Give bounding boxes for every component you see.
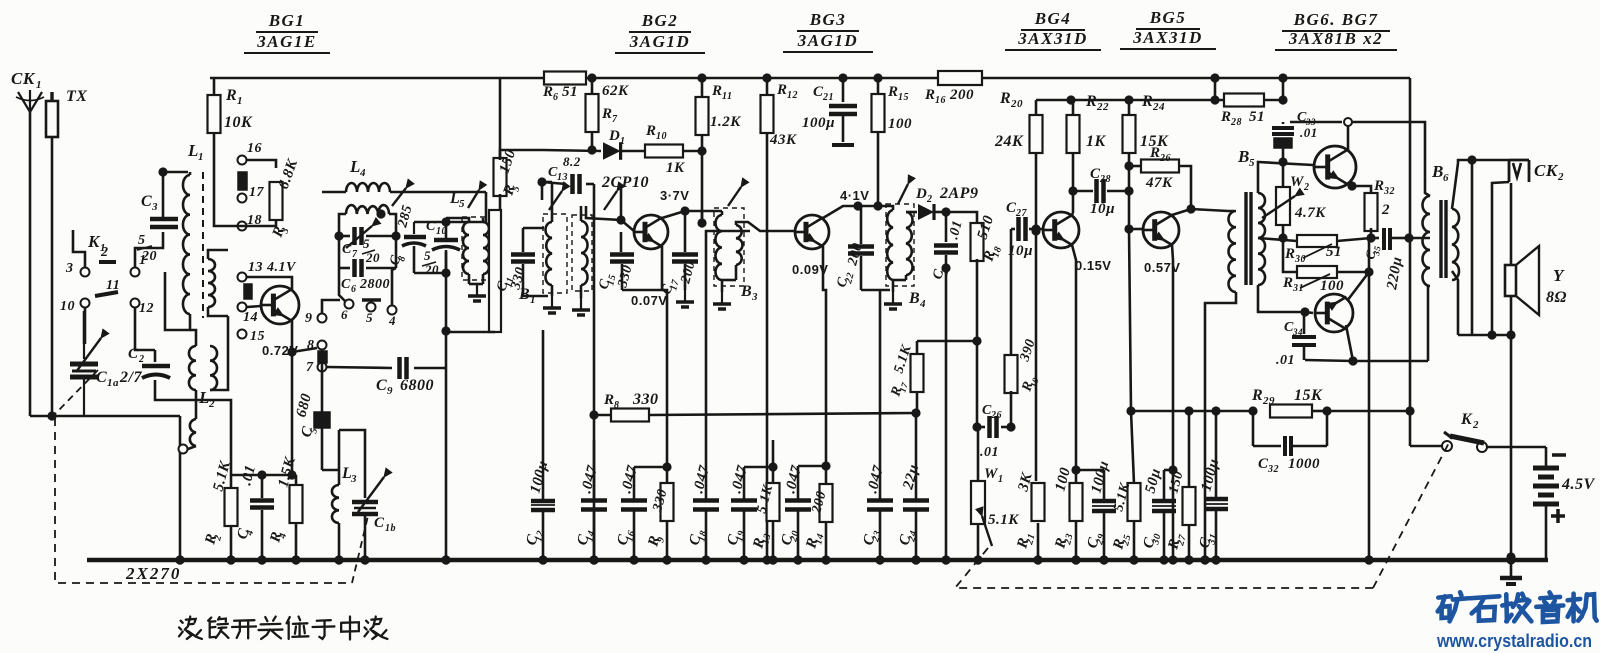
svg-text:285: 285 xyxy=(395,203,416,230)
switch contacts 16 17 18 xyxy=(238,141,265,231)
on-off switch K2 xyxy=(1442,411,1487,452)
resistor R19 390 xyxy=(1005,229,1041,432)
capacitor C28 10u xyxy=(1073,166,1129,217)
feedback line to R29 xyxy=(1131,406,1258,415)
svg-text:R: R xyxy=(1149,145,1161,161)
svg-text:14: 14 xyxy=(243,310,258,325)
svg-text:0.15V: 0.15V xyxy=(1075,258,1111,273)
wire rail to bus xyxy=(1210,73,1219,100)
volume/switch dashed link xyxy=(955,437,1452,588)
svg-text:W: W xyxy=(984,466,999,482)
svg-text:13: 13 xyxy=(557,172,568,183)
svg-text:2800: 2800 xyxy=(359,277,390,292)
L1 secondary winding xyxy=(208,250,228,316)
transistor BG4 xyxy=(1043,212,1079,248)
svg-text:6: 6 xyxy=(553,92,559,103)
wire K1-10 down to C1a xyxy=(84,308,87,344)
svg-text:3: 3 xyxy=(751,291,758,303)
capacitor C11 330 xyxy=(494,228,548,296)
wire BG7 emitter xyxy=(1347,272,1369,301)
capacitor C19 .047 xyxy=(724,464,757,565)
svg-text:100µ: 100µ xyxy=(527,459,551,495)
svg-text:17: 17 xyxy=(249,185,265,200)
svg-text:27: 27 xyxy=(1015,208,1028,219)
transistor BG1 xyxy=(261,286,299,324)
svg-text:2: 2 xyxy=(926,194,933,205)
svg-text:3: 3 xyxy=(65,261,74,276)
svg-text:.047: .047 xyxy=(782,464,805,495)
wire jack to speaker top xyxy=(1510,183,1513,265)
potentiometer W1 5.1K xyxy=(971,427,1019,565)
transistor BG2 xyxy=(634,215,668,249)
svg-text:19: 19 xyxy=(1028,376,1041,389)
svg-text:6: 6 xyxy=(341,307,348,322)
svg-text:10K: 10K xyxy=(224,114,253,131)
svg-text:15: 15 xyxy=(898,92,909,103)
wire L1 bottom xyxy=(165,272,190,330)
resistor R14 200 xyxy=(798,461,833,564)
svg-text:BG6. BG7: BG6. BG7 xyxy=(1293,10,1379,29)
L1 core (dashed) xyxy=(202,172,204,318)
svg-text:5: 5 xyxy=(363,236,370,251)
transistor BG5 xyxy=(1143,212,1179,248)
svg-text:7: 7 xyxy=(352,249,358,260)
svg-text:B: B xyxy=(908,290,920,307)
B4 primary winding xyxy=(878,206,902,309)
svg-text:CK: CK xyxy=(1534,161,1559,180)
wire BG1 emitter to contact 8 xyxy=(292,348,317,352)
svg-text:4.5V: 4.5V xyxy=(1561,476,1596,493)
svg-text:.047: .047 xyxy=(728,464,751,495)
bus junction dots xyxy=(175,555,369,564)
svg-text:8Ω: 8Ω xyxy=(1546,289,1567,306)
svg-text:3AX81B x2: 3AX81B x2 xyxy=(1288,29,1383,48)
svg-text:3: 3 xyxy=(350,473,357,485)
output transformer B6 xyxy=(1423,162,1460,286)
svg-text:1b: 1b xyxy=(385,523,396,534)
svg-text:5: 5 xyxy=(424,248,431,263)
IF transformer B3 shield xyxy=(714,208,744,286)
wire BG2 base xyxy=(586,206,634,231)
capacitor C33 .01 xyxy=(1272,110,1318,162)
svg-text:C: C xyxy=(341,277,351,292)
svg-text:.047: .047 xyxy=(690,464,713,495)
tuning arrow on L4 xyxy=(392,179,414,206)
svg-text:.01: .01 xyxy=(1276,353,1295,368)
resistor R24 15K xyxy=(1123,93,1170,234)
wire B6 secondary bottom xyxy=(1452,271,1458,335)
svg-text:4: 4 xyxy=(919,298,926,310)
wire BG5 base xyxy=(1129,228,1143,231)
svg-text:3AG1D: 3AG1D xyxy=(797,31,858,50)
wire L2 right to contacts xyxy=(210,316,228,390)
resistor R13 5.1K xyxy=(744,462,780,564)
svg-text:100µ: 100µ xyxy=(1088,459,1112,495)
wire BG5 collector xyxy=(1172,209,1191,215)
capacitor C29 100u xyxy=(1076,459,1116,565)
svg-text:2: 2 xyxy=(1472,419,1479,431)
capacitor C13 8.2 xyxy=(537,154,594,200)
resistor R9 330 xyxy=(634,462,674,564)
wire base vertical down xyxy=(1126,229,1135,484)
svg-text:3·7V: 3·7V xyxy=(660,188,689,203)
svg-text:R: R xyxy=(1284,246,1296,262)
B1 primary winding xyxy=(543,182,561,313)
svg-text:D: D xyxy=(608,128,620,144)
ground symbol xyxy=(1500,557,1522,584)
svg-text:R: R xyxy=(924,87,936,103)
wire C1a top to K1 xyxy=(83,311,86,344)
contacts 9 8 7 xyxy=(305,311,327,375)
svg-text:5: 5 xyxy=(1249,157,1255,169)
svg-text:17: 17 xyxy=(897,381,910,394)
wire emitter rail to R2 C4 R4 xyxy=(231,470,297,479)
contact 13 and label 4.1V xyxy=(238,260,298,299)
earphone jack CK2 xyxy=(1509,160,1564,183)
svg-text:2: 2 xyxy=(1381,202,1390,218)
svg-text:R: R xyxy=(999,90,1011,107)
wire C3 top to L1 top xyxy=(158,167,188,196)
capacitor C5 680 xyxy=(293,351,339,470)
svg-text:R: R xyxy=(887,84,899,100)
svg-text:3AG1E: 3AG1E xyxy=(256,32,316,51)
svg-text:16: 16 xyxy=(624,529,637,542)
capacitor C32 1000 xyxy=(1253,411,1327,475)
wire BG1 emitter down xyxy=(291,320,294,475)
wire R5 top to diode line xyxy=(500,150,543,160)
svg-text:R: R xyxy=(542,84,554,100)
wire B6 secondary top to CK2 xyxy=(1452,155,1509,209)
svg-text:9: 9 xyxy=(305,311,313,326)
wire down to ground bus xyxy=(175,416,184,565)
svg-text:16: 16 xyxy=(935,95,946,106)
svg-text:26: 26 xyxy=(1159,153,1171,164)
capacitor C17 200 xyxy=(659,211,698,307)
svg-text:2: 2 xyxy=(1303,182,1310,193)
label 0.09V xyxy=(792,262,828,277)
svg-text:R: R xyxy=(1085,93,1097,110)
wire C18 top xyxy=(706,231,750,470)
label 4.1V xyxy=(840,188,869,203)
svg-text:.047: .047 xyxy=(618,464,641,495)
svg-text:C: C xyxy=(128,346,139,362)
L2 tickler winding xyxy=(179,390,197,454)
svg-text:1a: 1a xyxy=(107,377,119,389)
wire C14 line down xyxy=(589,415,598,565)
svg-text:1: 1 xyxy=(237,95,243,107)
wire oscillator tank xyxy=(414,192,486,565)
wire B5 primary bottom xyxy=(1200,292,1236,565)
svg-text:51: 51 xyxy=(562,84,578,100)
svg-text:1: 1 xyxy=(36,79,42,91)
wire base BG1 xyxy=(247,306,261,307)
diode D1 2CP10 xyxy=(543,128,649,191)
resistor R4 1.5K xyxy=(267,455,302,565)
B3 secondary winding xyxy=(722,222,795,280)
capacitor C2 xyxy=(128,346,170,392)
capacitor C20 .047 xyxy=(778,464,811,565)
label B4 xyxy=(908,290,926,310)
svg-text:R: R xyxy=(1251,387,1263,404)
svg-text:100µ: 100µ xyxy=(802,115,835,131)
top supply bus xyxy=(210,77,1410,80)
wire B5 secondary bottom to BG7 base xyxy=(1258,285,1313,317)
svg-text:12: 12 xyxy=(533,529,546,542)
wire C24 line xyxy=(915,413,918,500)
watermark url xyxy=(1436,631,1592,651)
IF transformer B1 secondary box xyxy=(572,215,592,291)
svg-text:20: 20 xyxy=(1010,98,1023,110)
wire R29 to supply line xyxy=(1327,406,1415,415)
resistor R32 2 xyxy=(1365,178,1396,243)
wire BG1 collector up xyxy=(247,277,292,291)
diode D2 2AP9 xyxy=(915,185,978,220)
svg-text:680: 680 xyxy=(293,392,315,419)
wire L2 top xyxy=(190,330,196,346)
capacitor C4 .01 xyxy=(234,463,274,564)
svg-text:2X270: 2X270 xyxy=(125,564,181,583)
svg-text:11: 11 xyxy=(722,91,732,102)
svg-text:.047: .047 xyxy=(864,464,887,495)
svg-text:1000: 1000 xyxy=(1288,456,1320,472)
resistor R22 1K xyxy=(1067,93,1110,213)
svg-text:22: 22 xyxy=(1096,101,1109,113)
wire L3 C1b top join xyxy=(339,430,365,460)
wire BG2 emitter xyxy=(622,246,667,467)
svg-text:22µ: 22µ xyxy=(900,463,922,492)
svg-text:R: R xyxy=(1373,178,1385,194)
svg-text:10: 10 xyxy=(60,299,75,314)
svg-text:www.crystalradio.cn: www.crystalradio.cn xyxy=(1436,631,1592,651)
svg-text:220µ: 220µ xyxy=(1384,255,1406,291)
wire collector line to B6 top xyxy=(1352,122,1430,196)
capacitor C21 100u xyxy=(802,73,857,145)
wire bias rail to B6 centre tap xyxy=(1409,237,1430,240)
svg-text:2AP9: 2AP9 xyxy=(939,185,978,202)
svg-text:50µ: 50µ xyxy=(1142,467,1164,495)
inductor L1 (ferrite antenna coil) xyxy=(183,141,204,314)
capacitor C30 50u xyxy=(1140,467,1176,560)
caption: band switch set to MW (Chinese) xyxy=(179,617,387,640)
svg-text:8: 8 xyxy=(307,338,315,353)
svg-text:2: 2 xyxy=(1557,171,1564,183)
tuning arrow B4 xyxy=(898,175,915,204)
transistor BG7 xyxy=(1315,294,1353,332)
resistor R17 5.1K xyxy=(888,336,981,413)
contact 15 xyxy=(238,329,266,344)
potentiometer W2 4.7K xyxy=(1262,162,1326,243)
svg-text:2/7: 2/7 xyxy=(119,369,142,386)
resistor R31 100 xyxy=(1282,238,1374,294)
svg-text:5: 5 xyxy=(138,233,146,248)
svg-text:R: R xyxy=(225,87,237,104)
battery 4.5V xyxy=(1533,455,1596,560)
svg-text:2: 2 xyxy=(138,354,145,365)
resistor R5 150 xyxy=(494,78,523,210)
svg-text:30: 30 xyxy=(1294,254,1306,265)
svg-text:21: 21 xyxy=(822,92,834,103)
capacitor C12 100u xyxy=(523,330,555,565)
svg-text:B: B xyxy=(1237,147,1250,166)
resistor R27 150 xyxy=(1165,406,1195,564)
wire BG2 collector xyxy=(662,206,707,227)
svg-text:.01: .01 xyxy=(946,219,965,241)
svg-text:CK: CK xyxy=(11,69,36,88)
svg-text:R: R xyxy=(645,123,657,139)
svg-text:4: 4 xyxy=(359,167,366,179)
svg-text:32: 32 xyxy=(1383,186,1395,197)
svg-text:8: 8 xyxy=(614,400,620,411)
wire BG7 collector to B6 bottom xyxy=(1305,286,1428,366)
svg-text:6800: 6800 xyxy=(400,377,434,394)
B3 primary winding xyxy=(702,211,731,309)
svg-text:3AX31D: 3AX31D xyxy=(1132,28,1202,47)
svg-text:B: B xyxy=(740,283,752,300)
svg-text:1: 1 xyxy=(998,474,1004,485)
svg-text:20: 20 xyxy=(424,262,439,277)
svg-text:W: W xyxy=(1290,174,1305,190)
svg-text:0.07V: 0.07V xyxy=(631,293,667,308)
trimmer C10 5/20 xyxy=(422,219,460,277)
capacitor C15 330 xyxy=(596,232,635,291)
svg-text:0.57V: 0.57V xyxy=(1144,260,1180,275)
open junction xyxy=(1344,118,1352,126)
svg-text:2: 2 xyxy=(100,245,109,260)
svg-text:TX: TX xyxy=(66,88,87,105)
svg-text:3AG1D: 3AG1D xyxy=(629,32,690,51)
capacitor C9 6800 xyxy=(327,357,446,397)
svg-text:10: 10 xyxy=(656,131,667,142)
transistor BG3 xyxy=(795,215,829,249)
svg-text:1.2K: 1.2K xyxy=(710,114,741,130)
capacitor C34 .01 xyxy=(1276,312,1316,368)
label BG5 / 3AX31D xyxy=(1120,8,1216,49)
capacitor C23 .047 xyxy=(860,290,893,565)
resistor R15 100 xyxy=(872,73,913,206)
transistor BG6 xyxy=(1314,146,1356,188)
wire BG3 emitter down xyxy=(823,246,826,466)
svg-text:4·1V: 4·1V xyxy=(840,188,869,203)
svg-text:D: D xyxy=(915,186,927,202)
capacitor C24 22u xyxy=(896,463,929,565)
resistor R21 3K xyxy=(1014,231,1044,565)
svg-text:10µ: 10µ xyxy=(1008,243,1033,259)
label 0.72V xyxy=(262,343,298,358)
second rail from R28 xyxy=(1036,95,1227,104)
svg-text:62K: 62K xyxy=(602,83,629,99)
capacitor C14 .047 xyxy=(574,440,607,565)
wire BG4 emitter down xyxy=(1071,245,1080,484)
contact 14 xyxy=(238,303,259,326)
wire speaker bottom xyxy=(1458,296,1516,562)
svg-text:BG5: BG5 xyxy=(1149,8,1187,27)
svg-text:1: 1 xyxy=(198,151,204,163)
svg-text:K: K xyxy=(1460,411,1473,428)
label 0.57V xyxy=(1144,260,1180,275)
resistor R25 5.1K xyxy=(1110,480,1140,564)
label B3 xyxy=(740,283,758,303)
svg-text:32: 32 xyxy=(1267,464,1279,475)
svg-text:51: 51 xyxy=(1249,109,1265,125)
wire C13 to base node xyxy=(620,184,623,220)
svg-text:24: 24 xyxy=(1152,101,1165,113)
svg-text:1: 1 xyxy=(530,294,536,306)
capacitor C26 .01 xyxy=(972,341,1011,460)
gang dashed link (2x270) xyxy=(55,370,368,583)
variable capacitor C1a 2/7 xyxy=(70,329,142,416)
svg-text:1K: 1K xyxy=(666,160,685,176)
svg-text:Y: Y xyxy=(1553,266,1565,285)
svg-text:R: R xyxy=(603,392,615,408)
svg-text:C: C xyxy=(376,377,387,394)
L4 lower winding xyxy=(339,205,396,236)
resistor R28 51 xyxy=(1220,73,1288,128)
tuning arrow B2 xyxy=(604,182,625,210)
driver transformer B5 xyxy=(1229,147,1266,292)
tuning arrow B1 xyxy=(549,182,570,210)
capacitor C3 5/20 xyxy=(137,193,178,264)
speaker Y 8 ohm xyxy=(1505,246,1567,315)
svg-text:16: 16 xyxy=(247,141,262,156)
capacitor C22 200 xyxy=(834,206,890,290)
wire CK2 contact to return xyxy=(1487,182,1509,340)
wire BG4 collector xyxy=(1072,213,1073,215)
label B1 xyxy=(518,286,536,306)
resistor R23 100 xyxy=(1052,466,1082,565)
resistor R3 6.8K xyxy=(246,157,301,241)
svg-text:18: 18 xyxy=(696,529,709,542)
resistor R11 1.2K xyxy=(696,83,742,223)
svg-text:15: 15 xyxy=(250,329,265,344)
svg-text:28: 28 xyxy=(1099,174,1111,185)
svg-text:200: 200 xyxy=(949,87,974,103)
svg-text:100: 100 xyxy=(888,116,912,132)
wire antenna to gang xyxy=(30,411,180,420)
label 0.07V xyxy=(631,293,667,308)
svg-text:7: 7 xyxy=(612,114,618,125)
svg-text:9: 9 xyxy=(387,385,393,397)
wire C2 bottom xyxy=(155,392,231,470)
wire R1 top to bus xyxy=(213,78,216,96)
wire BG3 collector xyxy=(823,201,883,218)
inductor L4 xyxy=(322,157,486,192)
capacitor C35 220u (series) xyxy=(1362,228,1413,292)
resistor R16 200 (in bus) xyxy=(924,71,982,106)
antenna CK1 xyxy=(11,69,44,416)
IF transformer B4 shield xyxy=(886,204,914,286)
label 0.15V xyxy=(1075,258,1111,273)
svg-text:4: 4 xyxy=(388,313,396,328)
svg-text:5.1K: 5.1K xyxy=(988,512,1019,528)
B4 secondary winding xyxy=(893,212,917,280)
wire osc contacts xyxy=(339,268,397,328)
svg-text:330: 330 xyxy=(632,391,659,408)
svg-text:24K: 24K xyxy=(994,133,1024,150)
svg-text:BG2: BG2 xyxy=(641,11,679,30)
svg-text:5: 5 xyxy=(366,310,373,325)
resistor R20 24K xyxy=(994,90,1043,236)
capacitor C31 100u xyxy=(1196,406,1228,564)
svg-text:6: 6 xyxy=(1443,172,1449,184)
bus junction dots right xyxy=(441,555,1515,564)
wire B5 primary top xyxy=(1191,209,1234,211)
svg-text:6: 6 xyxy=(351,284,357,295)
svg-text:34: 34 xyxy=(1292,327,1303,337)
wire BG6 emitter to R32 xyxy=(1347,181,1371,196)
resistor R10 1K xyxy=(645,123,707,176)
label 3.7V xyxy=(660,188,689,203)
svg-text:R: R xyxy=(711,83,723,99)
